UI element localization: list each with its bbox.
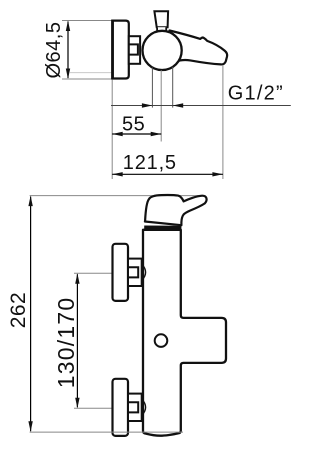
diverter knob circle [155, 334, 168, 347]
body column with spout protrusion [143, 230, 226, 436]
262 dimension line [30, 197, 32, 432]
lower escutcheon [113, 379, 129, 436]
lower nut facets [128, 402, 138, 412]
outlet stub line right [172, 67, 174, 108]
knob stem [157, 27, 166, 32]
svg-text:130/170: 130/170 [53, 297, 79, 389]
G1/2 dimension line [111, 105, 291, 107]
svg-text:55: 55 [122, 114, 145, 136]
lower union ball arc [142, 399, 146, 415]
svg-text:G1/2”: G1/2” [228, 83, 284, 105]
outlet stub line left [151, 68, 153, 108]
extension line top (dia 64,5) [62, 20, 112, 22]
wall escutcheon (side) [113, 21, 129, 79]
upper union nut [128, 259, 142, 286]
extension line bottom (dia 64,5) [62, 78, 112, 80]
130/170 extension line top [74, 272, 114, 274]
svg-text:Ø64,5: Ø64,5 [43, 22, 65, 79]
union nut (side) [129, 36, 140, 64]
upper union ball arc [142, 264, 146, 280]
diverter knob [154, 11, 168, 27]
nut facet lines [129, 44, 138, 54]
spout end extension line [222, 65, 224, 179]
upper escutcheon [113, 244, 129, 301]
lever handle (plan) [145, 195, 207, 225]
G1/2 arrow left (pointing right) [142, 103, 153, 107]
svg-text:262: 262 [7, 292, 30, 329]
bonnet band [144, 226, 181, 230]
escutcheon wall-side bold edge [111, 20, 114, 80]
121,5 dimension line [112, 173, 223, 175]
body circle [143, 31, 182, 70]
extension line top (262) [30, 195, 199, 197]
center line of body [160, 70, 162, 141]
wall plane extension line [111, 80, 113, 180]
55 dimension line [112, 133, 161, 135]
130/170 extension line bottom [74, 407, 114, 409]
svg-text:121,5: 121,5 [123, 152, 177, 174]
extension line bottom (262) [30, 431, 183, 433]
lower union nut [128, 394, 142, 421]
spout [167, 31, 228, 65]
G1/2 arrow right (pointing left) [173, 103, 184, 107]
upper nut facets [128, 267, 138, 277]
130/170 dimension line [76, 274, 78, 407]
dimension line dia 64,5 [67, 22, 69, 79]
hidden pipe line [70, 72, 112, 74]
